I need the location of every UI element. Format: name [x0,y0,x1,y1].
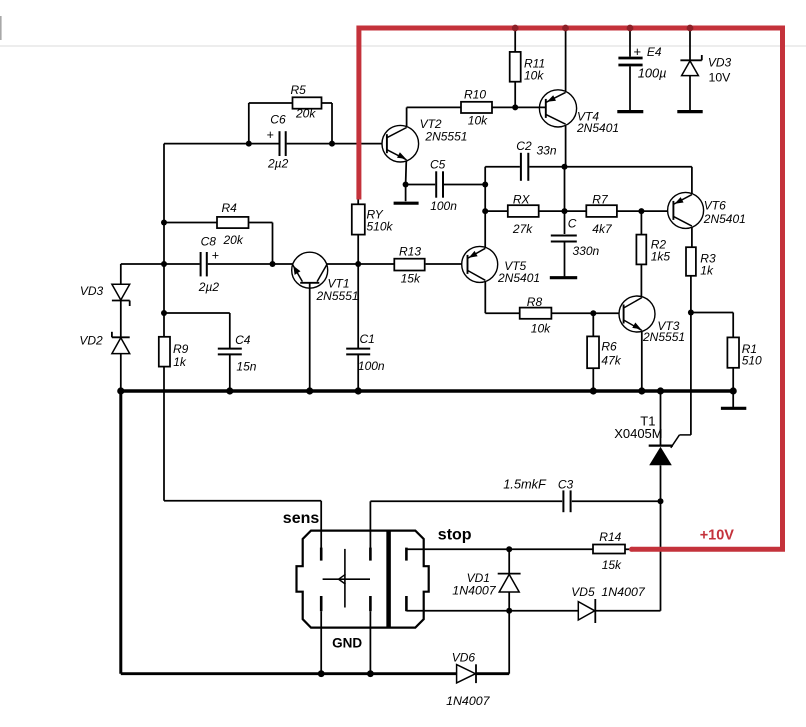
wire C2 node to VT6 top corner [565,166,692,168]
resistor R9 [159,337,170,367]
wire R13 right to VT5 base [426,263,462,265]
wire R9 bottom to sens line [163,367,165,501]
diode VD1 [498,573,521,575]
svg-text:10V: 10V [709,71,732,85]
svg-text:2µ2: 2µ2 [198,280,220,294]
capacitor C5 [435,171,437,197]
wire T1 node down to VD5 corner [660,501,662,611]
svg-text:1k: 1k [700,264,714,278]
junction node on +10V rail (515.2,28) [512,25,519,32]
wire R11 bottom [514,82,516,108]
svg-text:C4: C4 [235,333,251,347]
wire C2 right to VT4 node [529,166,564,168]
wire VD1 top lead [508,549,510,573]
svg-text:15n: 15n [236,359,256,373]
svg-text:2µ2: 2µ2 [267,156,289,170]
junction node (564.5,211.1) [562,208,568,214]
svg-text:2N5401: 2N5401 [497,271,540,285]
junction node (485.2,211.1) [482,208,488,214]
svg-text:1k5: 1k5 [651,250,671,264]
wire R10 right to VT4 base [492,106,546,108]
wire sensor GND pin 2 down [369,611,371,674]
svg-text:VD5: VD5 [571,585,595,599]
wire VD3 zener top [689,28,691,60]
transistor VT2 [382,125,419,162]
svg-text:15k: 15k [602,558,622,572]
svg-text:R5: R5 [291,83,307,97]
junction node bottom (370.4,674) [367,670,374,677]
resistor R3 [686,247,696,276]
svg-text:E4: E4 [647,45,662,59]
wire C1 column [357,264,359,348]
svg-text:C6: C6 [270,113,286,127]
diode VD5 [594,599,596,623]
resistor R6 [587,336,599,368]
wire VT1 emitter down [309,283,311,391]
capacitor C6 [279,131,281,156]
wire corner up to VD1 node [508,611,510,674]
junction node (164,313) [161,310,167,316]
svg-text:510k: 510k [367,220,394,234]
svg-text:VD3: VD3 [708,56,732,70]
svg-text:100µ: 100µ [638,66,667,81]
junction node rail (358.2,391) [355,387,362,394]
ground (VD3 zener) [677,110,702,113]
wire VD3-VD2 left column [120,264,122,284]
junction node (272.5,264) [270,261,276,267]
transistor VT3 [619,296,655,332]
svg-text:sens: sens [283,510,320,527]
svg-text:10k: 10k [524,69,544,83]
wire R11 top [514,28,516,52]
wire R6 bottom [592,368,594,391]
junction node (405.6,184.5) [403,182,409,188]
svg-text:X0405M: X0405M [614,426,662,441]
wire C4 bottom lead [229,355,231,391]
ground (C 330n) [550,276,577,279]
resistor R11 [510,52,521,82]
junction node (515.2,107.4) [512,104,518,110]
wire node to R1 top [691,312,733,314]
svg-text:R7: R7 [592,193,609,207]
junction node (593.3,313.2) [590,310,596,316]
wire R6 top [592,313,594,336]
ground (E4) [617,110,643,113]
svg-text:+: + [212,249,219,263]
wire R2 top [640,211,642,235]
wire lower stop line (pin to VD5) [406,610,578,612]
svg-text:VD2: VD2 [79,334,103,348]
svg-text:20k: 20k [295,107,316,121]
wire R5 left jog up [248,103,250,144]
wire VT5 collector down to R8 line [484,281,486,313]
ground rail y391 [119,389,733,393]
junction node (164,264) [161,261,167,267]
sensor bottom pin stop [405,596,408,611]
svg-text:1N4007: 1N4007 [446,694,491,708]
wire C5 left [406,184,436,186]
wire RY bottom [357,235,359,264]
wire R5 right jog down [322,102,333,104]
sensor top pin mid [369,548,372,561]
svg-text:1.5mkF: 1.5mkF [503,477,547,492]
svg-text:+: + [267,128,274,142]
svg-text:R13: R13 [399,244,421,258]
wire VD1 bottom lead [508,592,510,611]
junction node (641.4,211.1) [638,208,644,214]
junction node on +10V rail (565.5,28) [562,25,569,32]
wire VT4 emitter up to +10V rail [565,28,567,91]
transistor VT1 [292,252,328,288]
capacitor C4 [218,348,242,350]
sensor bottom pin mid [369,596,372,611]
wire T1 cathode down to C3 node [660,465,662,501]
junction node (485.2,184.5) [482,182,488,188]
wire R1 bottom [732,368,734,391]
junction node (509.2,549.3) [506,546,512,552]
wire R2 bottom to VT3 collector [640,264,642,297]
+10V supply wire (red) [359,28,783,549]
resistor R4 [217,217,249,228]
sensor bottom pin sens [320,596,323,611]
wire R4 right + down to C8 node [249,222,273,224]
resistor RX [508,205,539,217]
svg-text:100n: 100n [358,359,385,373]
svg-text:VT6: VT6 [704,199,726,213]
svg-text:2N5551: 2N5551 [642,330,685,344]
diode VD3 (left zener) [112,300,130,302]
junction node (690.9,312.5) [688,310,694,316]
svg-text:1N4007: 1N4007 [452,584,497,598]
junction node rail (733.2,391) [730,387,737,394]
svg-text:+10V: +10V [700,528,735,544]
svg-text:20k: 20k [223,233,244,247]
resistor R13 [394,259,424,271]
wire C8 line left segment [121,263,200,265]
wire VT4 collector down to C2 node [565,126,567,167]
svg-text:RX: RX [513,193,531,207]
wire C3 right [572,500,661,502]
capacitor E4 electrolytic [618,57,642,60]
wire R7 left [565,210,587,212]
wire R9 top branch [164,312,230,314]
svg-text:2N5401: 2N5401 [576,121,619,135]
wire RX left [485,210,508,212]
svg-text:100n: 100n [430,199,457,213]
svg-text:R4: R4 [222,201,238,215]
wire C2 left corner [485,166,520,168]
svg-text:R10: R10 [464,88,486,102]
resistor R14 [593,545,625,554]
resistor RY [352,204,365,234]
diode VD2 [112,336,130,338]
svg-text:VD6: VD6 [452,651,476,665]
diode VD3 (zener 10V) [680,59,701,61]
svg-text:2N5551: 2N5551 [424,130,467,144]
wire left column x164 [163,144,165,337]
wire VT2 collector up to R10 [406,107,408,126]
wire R13 left [358,263,394,265]
transistor VT6 [668,192,704,228]
wire T1 gate column [690,313,692,435]
junction node (164,222.5) [161,220,167,226]
junction node (660.5,501.3) [658,498,664,504]
svg-text:VD3: VD3 [80,284,104,298]
svg-text:C: C [568,217,577,231]
junction node (358.2,264) [355,261,361,267]
junction node (509.2,610.8) [506,608,512,614]
junction node (332,143.6) [329,141,335,147]
junction node (248.8,143.6) [246,141,252,147]
wire R1 ground stem [732,391,734,407]
wire R8 right to R6 node [551,312,593,314]
resistor R2 [636,235,646,265]
svg-text:C1: C1 [360,332,375,346]
svg-text:330n: 330n [573,244,600,258]
svg-text:15k: 15k [401,272,421,286]
wire VT3 emitter down to rail [641,331,643,391]
ground (R1) [721,407,746,410]
capacitor C8 [200,252,202,276]
svg-text:4k7: 4k7 [592,222,613,236]
wire sens line [164,500,321,502]
wire R14 right stub [625,548,633,550]
svg-text:+: + [634,44,642,59]
capacitor C3 [562,490,564,512]
scan artifact faint horizontal line [0,45,806,47]
junction node on +10V rail (630,28) [627,25,634,32]
svg-text:R6: R6 [601,340,617,354]
wire bottom line left of VD6 [121,672,457,675]
capacitor C 330n [551,235,577,237]
junction node rail (120.8,391) [117,387,124,394]
wire VT2 emitter down to C5 node [405,161,408,185]
junction node (564.5,166.8) [562,164,568,170]
resistor R7 [586,205,617,217]
wire RX right [539,210,565,212]
wire R3 bottom to node [690,276,692,313]
resistor R10 [461,102,492,113]
wire R4 left [164,222,217,224]
sensor top pin sens [320,548,323,561]
svg-text:47k: 47k [601,354,621,368]
wire VT6 emitter top lead [691,167,693,194]
ground (VT2 emitter) [394,202,419,205]
wire C5 right [444,184,485,186]
wire E4 top [629,28,631,57]
junction node rail (593.3,391) [590,387,597,394]
wire C6 line right segment (C6-VT2 base) [287,143,383,145]
wire VT6 collector to R3 [691,227,693,247]
svg-text:510: 510 [742,354,762,368]
svg-text:10k: 10k [468,114,488,128]
svg-text:1k: 1k [173,355,187,369]
junction node rail (641.8,391) [638,387,645,394]
junction node rail (309.7,391) [306,387,313,394]
svg-text:C5: C5 [430,158,446,172]
svg-text:GND: GND [332,636,362,651]
scan artifact left-edge tick [0,16,2,40]
sensor internal arrow symbol [344,549,346,608]
capacitor C2 [520,153,522,181]
svg-text:C2: C2 [516,139,532,153]
wire VT1 collector to node [327,263,358,265]
resistor R8 [520,308,552,319]
svg-text:R14: R14 [599,530,621,544]
svg-text:stop: stop [438,527,472,544]
wire bottom line VD6 to corner [476,672,509,675]
wire VD3 zener bottom to ground [689,76,691,111]
svg-text:2N5401: 2N5401 [703,212,746,226]
junction node rail (660.5,391) [657,387,664,394]
svg-text:C8: C8 [201,235,217,249]
svg-text:27k: 27k [512,222,533,236]
svg-text:R8: R8 [527,295,543,309]
wire node column x485 (C2 corner to VT5 emitter) [484,167,486,247]
junction node on +10V rail (690,28) [687,25,694,32]
wire C8 line right segment (to VT1) [208,263,293,265]
wire left edge down [119,391,122,674]
svg-text:33n: 33n [537,144,557,158]
wire R7 right to VT6 base [617,210,668,212]
junction node rail (229.8,391) [226,387,233,394]
wire T1 anode top [660,391,662,446]
svg-text:C3: C3 [558,478,574,492]
wire node column x564 (C2 node down through RX node to C) [564,167,566,234]
transistor VT5 [462,246,498,282]
wire sensor GND pin 1 down [320,611,322,674]
resistor R5 [293,97,322,108]
resistor R1 [727,337,739,367]
wire C 330n bottom to ground [564,241,566,277]
thyristor T1 [649,445,673,447]
svg-text:2N5551: 2N5551 [316,289,359,303]
transistor VT4 [539,90,576,127]
wire VT3 base left [593,312,619,314]
wire RY top stub [357,197,359,205]
wire C6 line left segment (x164-C6) [164,143,279,145]
wire E4 bottom to ground [629,66,631,110]
wire C3 left (from sensor mid pin) [369,501,371,548]
svg-text:10k: 10k [531,322,551,336]
wire stop line (pin to R14) [406,548,593,550]
capacitor C1 [346,348,370,350]
svg-text:1N4007: 1N4007 [601,585,646,599]
junction node bottom (321.2,674) [318,670,325,677]
sensor connector body [297,531,429,628]
sensor top pin stop [405,548,408,561]
diode VD6 [475,664,477,683]
